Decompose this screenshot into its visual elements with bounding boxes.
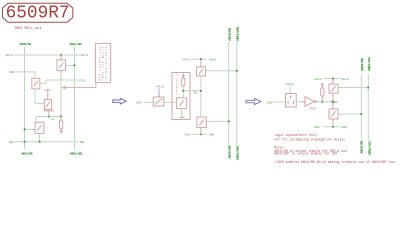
node pd right — [60, 115, 62, 117]
rail B'' x368 — [367, 74, 369, 140]
green net labels left section — [6, 42, 88, 156]
transistor T5 — [197, 67, 206, 76]
svg-text:ADL0: ADL0 — [314, 77, 322, 81]
wire GB0 to pass gate — [144, 101, 154, 103]
wire T1 gate to rail B — [66, 64, 75, 66]
node W0 right — [200, 90, 202, 92]
svg-text:ABC0/DB: ABC0/DB — [21, 152, 33, 156]
node SB0 right — [332, 126, 334, 128]
transistor T6 — [197, 117, 206, 128]
pass gate 1 — [153, 97, 164, 106]
transistor mid pulldown — [177, 98, 187, 109]
red annotation text block — [274, 133, 397, 164]
svg-text:PHI2: PHI2 — [157, 85, 165, 89]
svg-text:6509R7: 6509R7 — [6, 2, 70, 23]
transistor T3 — [44, 99, 51, 109]
node W0 left — [182, 90, 184, 92]
rail B' ABE1/ABL — [236, 41, 238, 148]
wire T6 gate to rail A' — [206, 120, 228, 122]
wire GB0 to pass gate 2 — [273, 101, 285, 103]
node Tup gate — [367, 86, 369, 88]
green labels middle — [136, 57, 216, 136]
svg-text:ABC0/SB: ABC0/SB — [360, 141, 364, 154]
svg-text:ABC0/DB: ABC0/DB — [227, 28, 231, 41]
svg-text:ABC0/DB: ABC0/DB — [227, 146, 231, 159]
svg-text:GB0: GB0 — [136, 101, 142, 105]
blue arrow 2 — [246, 99, 261, 105]
svg-text:GB0: GB0 — [267, 101, 273, 105]
wire GBM — [16, 72, 35, 78]
svg-text:SB0: SB0 — [342, 125, 348, 129]
svg-text:ADL0: ADL0 — [182, 57, 190, 61]
node T5 gate — [236, 70, 238, 72]
svg-text:ABC0/SB: ABC0/SB — [20, 42, 32, 46]
node dots right — [321, 77, 369, 128]
svg-text:ADL0: ADL0 — [209, 57, 217, 61]
transistors left section — [32, 55, 66, 134]
wire ADL0 right — [324, 78, 341, 80]
vdd arrow mid — [182, 73, 185, 77]
wire pass gate to big box — [164, 101, 177, 103]
wire mid transistor ground stem — [181, 109, 183, 118]
svg-text:ADL0: ADL0 — [342, 77, 350, 81]
svg-text:7406: 7406 — [309, 107, 316, 110]
wire inverter out — [316, 101, 333, 103]
wire W0 vertical — [200, 76, 202, 117]
node bottom T4 — [38, 141, 40, 143]
rail B (ABE1/ABL vertical) — [74, 47, 76, 149]
wire pullup to transistor — [182, 86, 184, 98]
wire T4 source down — [39, 133, 41, 141]
rail right vertical labels — [360, 56, 372, 155]
svg-text:inverter,1: inverter,1 — [175, 73, 179, 94]
svg-text:ABC0/SB: ABC0/SB — [360, 58, 364, 71]
inverter U1 — [305, 97, 314, 107]
svg-text:pd: pd — [51, 117, 55, 121]
transistor T4 — [35, 122, 44, 133]
transistor T1 — [57, 60, 66, 71]
node dots left section — [24, 54, 76, 143]
PHI2 stem — [158, 89, 160, 98]
pulldown arrow — [60, 129, 62, 131]
wire T2 drain to T1 line — [40, 80, 78, 83]
rail A' ABC0/DB — [228, 42, 230, 148]
node T1 gate rail B — [73, 64, 75, 66]
svg-text:ADL0: ADL0 — [81, 53, 89, 57]
svg-text:not for estimating propagation: not for estimating propagation delays — [274, 137, 345, 141]
node T6 gate — [228, 120, 230, 122]
svg-text:ABE1/ADL: ABE1/ADL — [367, 140, 371, 155]
rail A'' x361 — [360, 74, 362, 140]
big box mid — [172, 73, 190, 120]
svg-text:SB0: SB0 — [9, 141, 14, 144]
svg-text:ABE1/ABL: ABE1/ABL — [70, 42, 83, 46]
svg-text:W0: W0 — [194, 92, 198, 95]
wire SB0 right — [324, 126, 341, 128]
node dots middle — [182, 58, 238, 135]
svg-text:ADL0: ADL0 — [6, 53, 14, 57]
svg-text:taps the gates: taps the gates — [101, 46, 105, 80]
node ADL0 mid — [200, 58, 202, 60]
pullup resistor right — [321, 82, 324, 85]
vcc bar above T3 — [45, 89, 52, 91]
svg-text:GBM: GBM — [9, 70, 15, 74]
wire node pd horizontal — [36, 116, 61, 118]
svg-text:B0: B0 — [334, 101, 338, 104]
red annotation arrow — [63, 83, 96, 90]
svg-text:logic equivalents only,: logic equivalents only, — [274, 133, 318, 137]
node pd left — [48, 115, 50, 117]
ground bar mid — [180, 117, 185, 119]
blue arrow 1 — [113, 98, 127, 104]
node SB0 mid — [200, 133, 202, 135]
transistor Tdown — [329, 109, 338, 119]
transistor T2 — [32, 78, 40, 89]
PHI2 stem right — [289, 86, 291, 94]
wire node down to T4 — [35, 117, 37, 123]
node ADL0 right — [332, 77, 334, 79]
bar below T3 — [44, 110, 54, 112]
svg-text:ABE1/ABL: ABE1/ABL — [235, 145, 239, 160]
pulldown resistor — [60, 117, 62, 121]
wire SB0 bottom — [15, 141, 78, 143]
title box 6509R7 — [3, 3, 73, 22]
node Tdown gate — [360, 113, 362, 115]
svg-text:SB0: SB0 — [184, 133, 190, 137]
wire W0 node — [183, 90, 201, 92]
transistor Tup — [329, 84, 338, 93]
svg-text:SB0 MLU_out: SB0 MLU_out — [15, 27, 42, 31]
pullup resistor mid — [182, 78, 185, 86]
wire T5 gate to rail B' — [206, 70, 237, 72]
svg-text:CHI2: CHI2 — [79, 80, 86, 83]
svg-text:of Dn outputs: of Dn outputs — [104, 46, 108, 80]
wire Tup gate to rail B'' — [338, 87, 368, 89]
pass gate 2 — [285, 79, 338, 127]
wire ADL0 top left — [14, 54, 80, 56]
note box vertical text — [97, 46, 108, 80]
svg-text://NOR enables ABC0/SB while ma: //NOR enables ABC0/SB while making creat… — [274, 160, 397, 164]
svg-text:SB0: SB0 — [209, 133, 215, 137]
node bottom rail A — [24, 141, 26, 143]
wire T4 gate to rail A — [25, 128, 34, 130]
red note box left — [95, 43, 110, 82]
node T4 gate — [24, 128, 26, 130]
node pullup out — [321, 101, 323, 103]
rail A' vertical labels — [227, 26, 239, 160]
svg-text:ABE1/ABL: ABE1/ABL — [235, 26, 239, 41]
rail A (ABC0/SB vertical) — [24, 47, 26, 149]
svg-text:ABE1/ADL: ABE1/ADL — [367, 56, 371, 71]
node out right — [332, 100, 335, 103]
green labels right — [267, 77, 349, 129]
wire ADL0 mid — [191, 58, 207, 60]
wire pass gate 2 to inverter — [296, 101, 305, 103]
wire Tdown gate to rail A'' — [338, 113, 361, 115]
svg-text:ABE1/ABL: ABE1/ABL — [70, 152, 83, 156]
svg-text:SB0: SB0 — [314, 125, 320, 129]
svg-text:SB0: SB0 — [80, 141, 85, 144]
wire SB0 mid — [191, 133, 208, 135]
svg-text:ABC0/DB? is output enable for: ABC0/DB? is output enable for SB? — [274, 152, 337, 156]
inverter U1 input pin — [302, 101, 305, 103]
wire T2 source down to T3 gate — [35, 89, 44, 103]
node ADL0/T1 — [60, 54, 62, 56]
wire T1 bottom vertical — [60, 73, 62, 117]
svg-text:PHI2: PHI2 — [286, 82, 294, 86]
